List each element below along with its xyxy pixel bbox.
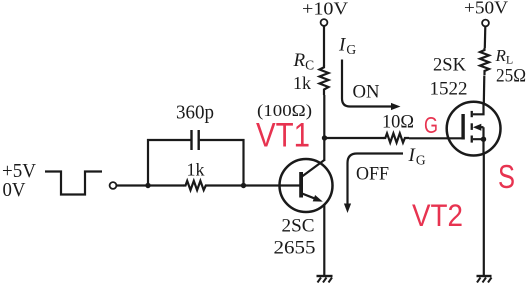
svg-text:VT2: VT2 xyxy=(412,197,463,233)
wire RL to +50V terminal xyxy=(484,27,487,49)
svg-text:ON: ON xyxy=(353,82,380,103)
OFF gate-current arrow xyxy=(344,154,403,214)
svg-text:1k: 1k xyxy=(293,73,311,93)
svg-text:10Ω: 10Ω xyxy=(382,112,414,133)
transistor VT1 (2SC2655 NPN) xyxy=(280,159,333,212)
svg-text:VT1: VT1 xyxy=(256,117,310,155)
svg-text:360p: 360p xyxy=(176,103,214,124)
wire drain to RL xyxy=(483,76,486,105)
wire capacitor right plate to corner xyxy=(200,139,245,141)
wire collector up to node C xyxy=(323,138,325,161)
node A junction xyxy=(145,183,150,188)
ground (emitter of VT1) xyxy=(317,276,333,283)
node B junction xyxy=(241,183,246,188)
wire node B to base of VT1 xyxy=(244,184,302,186)
wire node C to resistor R2 xyxy=(325,137,384,139)
transistor VT2 (2SK1522 N-MOSFET) xyxy=(447,102,501,156)
svg-text:25Ω: 25Ω xyxy=(496,66,526,87)
wire node A to resistor R1 xyxy=(148,184,184,186)
svg-text:+10V: +10V xyxy=(302,0,348,19)
svg-text:S: S xyxy=(498,158,515,195)
wire source to ground xyxy=(483,154,485,277)
resistor R2 10Ω xyxy=(383,133,409,142)
wire node A up to cap branch xyxy=(147,139,149,187)
wire to capacitor left plate xyxy=(147,139,191,141)
svg-text:2655: 2655 xyxy=(274,238,316,259)
svg-text:0V: 0V xyxy=(3,179,27,201)
+50V supply terminal xyxy=(482,20,489,27)
svg-text:G: G xyxy=(424,112,438,138)
svg-text:2SK: 2SK xyxy=(433,55,466,76)
svg-text:1522: 1522 xyxy=(430,79,468,100)
wire cap branch down to node B xyxy=(242,139,244,187)
svg-text:1k: 1k xyxy=(187,160,205,180)
wire input terminal to node A xyxy=(117,184,148,186)
svg-text:OFF: OFF xyxy=(356,164,389,185)
wire emitter to ground xyxy=(323,204,325,276)
resistor RL 25Ω xyxy=(480,48,489,75)
resistor RC wire below xyxy=(323,95,325,138)
resistor RC 1k (100Ω) xyxy=(320,65,329,95)
wire resistor R1 to node B xyxy=(210,184,244,186)
capacitor C1 plates xyxy=(192,130,199,150)
svg-text:(100Ω): (100Ω) xyxy=(257,101,312,120)
wire RC to +10V terminal xyxy=(323,26,325,66)
node C junction xyxy=(322,135,327,140)
input pulse waveform xyxy=(45,172,102,195)
ground (source of VT2) xyxy=(477,276,492,283)
+10V supply terminal xyxy=(321,19,328,26)
svg-text:+50V: +50V xyxy=(464,0,508,18)
svg-text:2SC: 2SC xyxy=(282,216,315,237)
ON gate-current arrow xyxy=(342,60,401,111)
resistor R1 1k xyxy=(183,181,210,190)
wire R2 to gate of VT2 xyxy=(409,137,449,139)
input terminal xyxy=(110,182,117,189)
